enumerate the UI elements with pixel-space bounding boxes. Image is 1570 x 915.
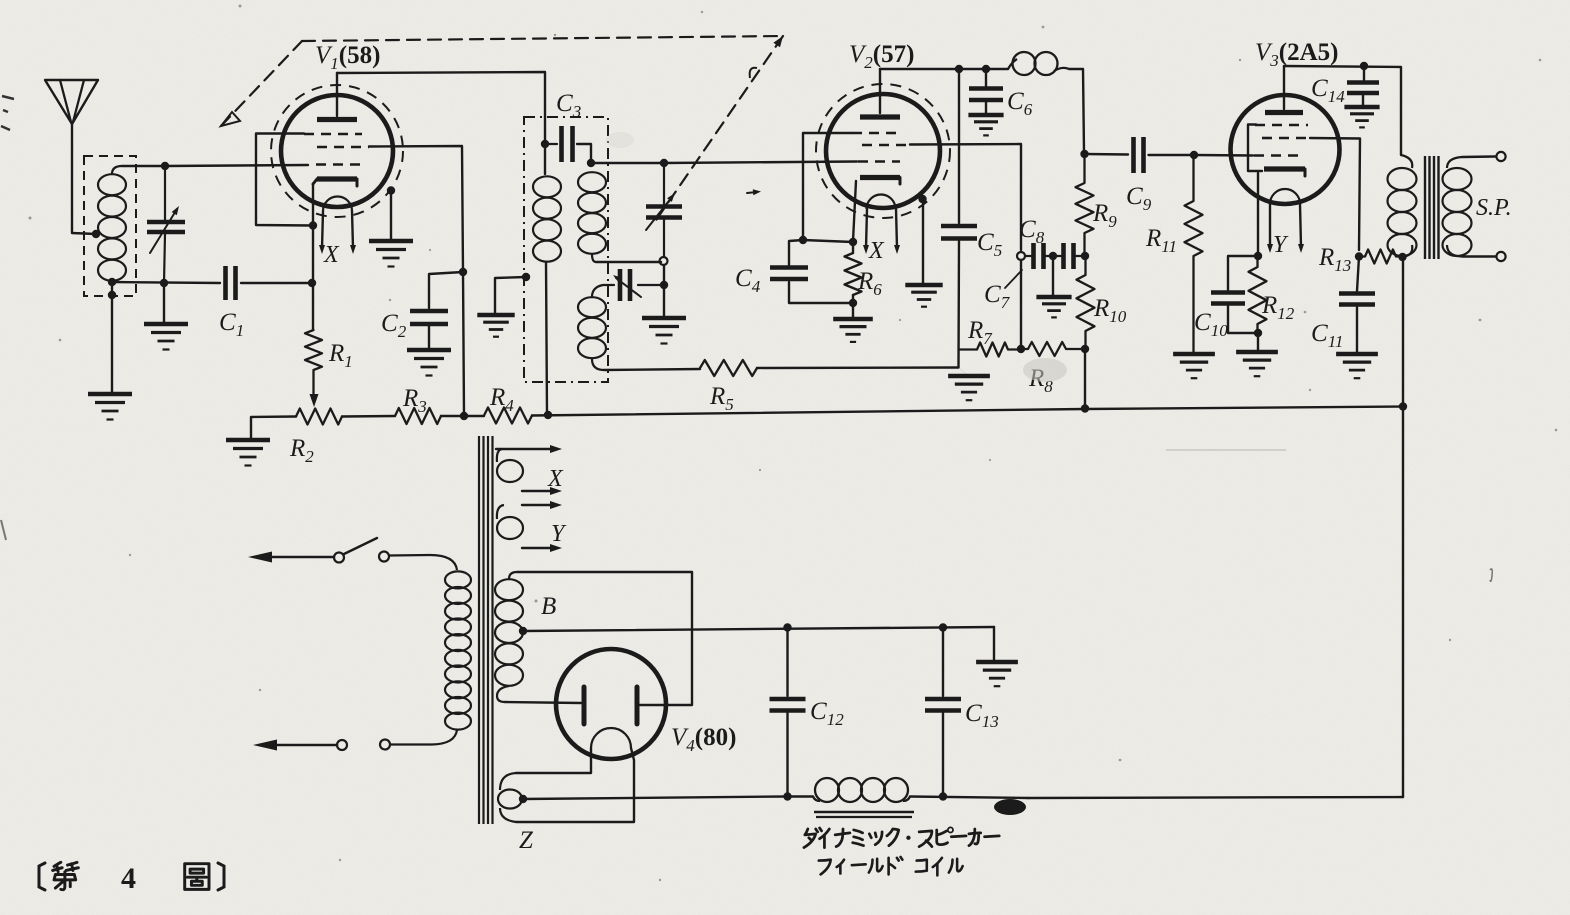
variable capacitor padder xyxy=(603,269,661,301)
label Y winding xyxy=(551,521,567,547)
tube V3 envelope xyxy=(1231,95,1340,204)
wire R5 to ground line xyxy=(757,366,958,369)
speaker terminal bottom xyxy=(1496,252,1505,261)
speaker terminal top xyxy=(1496,152,1505,161)
inductor C3 tickler xyxy=(578,285,606,370)
ground C11 xyxy=(1336,354,1378,378)
ink blob xyxy=(994,799,1026,815)
label R11 xyxy=(1145,225,1177,256)
wire V3 plate top-cap lead xyxy=(1283,66,1285,109)
node bus R10 tap xyxy=(1081,404,1089,412)
wire V2 suppressor box xyxy=(803,133,852,239)
ground B+ line xyxy=(976,662,1018,686)
wire V1 cathode lead xyxy=(312,184,314,330)
svg-text:B: B xyxy=(541,593,556,620)
label C11 xyxy=(1311,320,1343,351)
wire C6 bypass ground lead xyxy=(985,102,987,114)
wire C4 loop xyxy=(789,240,850,303)
resistor R12 xyxy=(1249,256,1267,333)
wire antenna lead xyxy=(72,124,96,234)
node V1 shield ground tap xyxy=(387,186,395,194)
label Z xyxy=(519,827,534,854)
node V3 cathode xyxy=(1254,252,1262,260)
inductor C6 choke xyxy=(1008,52,1069,75)
label R6 xyxy=(857,268,882,299)
inductor mains primary xyxy=(445,571,471,729)
label C5 xyxy=(977,229,1002,260)
label C10 xyxy=(1194,309,1228,340)
capacitor C4 xyxy=(770,268,808,280)
V2 heater xyxy=(867,195,896,210)
wire C3 primary line xyxy=(544,144,546,174)
label C13 xyxy=(965,700,999,731)
label R12 xyxy=(1261,292,1295,323)
resistor R11 xyxy=(1185,155,1203,353)
plug prong top xyxy=(248,552,334,563)
node C3 primary top xyxy=(541,140,549,148)
node B center tap xyxy=(519,627,527,635)
label C12 xyxy=(810,698,844,729)
wire V3 plate line xyxy=(1284,66,1401,155)
node V1 cathode-suppressor xyxy=(309,221,317,229)
wire V2 plate top-cap lead xyxy=(879,69,881,113)
wire B+ right side xyxy=(1402,407,1404,798)
ground R6 xyxy=(833,319,873,342)
node plate load top xyxy=(1080,150,1088,158)
V1 cathode xyxy=(313,179,357,186)
label R3 xyxy=(402,385,427,416)
resistor R5 xyxy=(700,360,757,376)
label X V2 xyxy=(868,238,885,264)
ground R12 xyxy=(1236,352,1278,376)
wire bias bus R2-R3 xyxy=(342,415,395,418)
switch lever xyxy=(344,538,377,554)
svg-text:V2(57): V2(57) xyxy=(849,41,914,72)
V1 screen grid xyxy=(317,146,369,149)
wire coil bottom to C1 xyxy=(112,282,220,283)
node grid/tuning junction xyxy=(161,162,169,170)
wire C13 lower lead xyxy=(942,713,944,797)
V3 cathode xyxy=(1264,169,1305,176)
V3 grid row3 xyxy=(1254,154,1300,157)
plug prong bottom xyxy=(253,740,337,751)
winding X xyxy=(496,445,562,495)
svg-text:Z: Z xyxy=(519,827,534,854)
capacitor C12 xyxy=(770,699,806,711)
capacitor C12 line xyxy=(786,628,788,697)
wire C5 line xyxy=(958,69,960,223)
wire R2 left lead xyxy=(251,417,296,440)
plug pin bottom right xyxy=(380,740,390,750)
scan smudge xyxy=(606,132,1492,581)
label R1 xyxy=(328,340,353,371)
winding B xyxy=(495,572,523,702)
node R6 bottom xyxy=(849,299,857,307)
resistor R9 xyxy=(1076,154,1094,254)
ground C6 bypass xyxy=(968,115,1003,135)
V2 screen grid xyxy=(862,144,910,147)
wire R12 ground lead xyxy=(1257,333,1259,351)
node C12 top xyxy=(783,623,791,631)
label R9 xyxy=(1092,200,1117,231)
V1 control grid xyxy=(316,163,360,166)
wire shield box ground lead xyxy=(495,277,526,314)
V4 heater xyxy=(591,728,631,748)
label S.P. xyxy=(1476,195,1512,221)
wire R9 top to C9 xyxy=(1085,153,1129,156)
ground shield box xyxy=(477,315,514,337)
wire V1 screen to divider xyxy=(369,146,463,272)
wire tickler to R5 xyxy=(604,369,700,370)
node IF tuning junction xyxy=(660,159,668,167)
node C5 tap xyxy=(955,65,963,73)
capacitor C5 xyxy=(941,226,977,239)
wire C11 ground lead xyxy=(1356,307,1358,353)
label C6 xyxy=(1007,88,1033,119)
V3 heater xyxy=(1270,189,1300,204)
node coil ground lead xyxy=(108,291,116,299)
power transformer core xyxy=(479,436,493,824)
wire bottom lead to primary xyxy=(390,730,457,745)
ring C8 left xyxy=(1017,252,1025,260)
dashed gang linkage xyxy=(221,36,783,226)
svg-text:X: X xyxy=(323,242,340,268)
node C3 secondary top xyxy=(587,159,595,167)
wire B+ bottom line xyxy=(523,797,787,800)
node tuning cap bottom xyxy=(160,279,168,287)
resistor R3 xyxy=(395,408,441,424)
wire C6 bypass lead xyxy=(985,69,987,86)
node output primary bottom xyxy=(1398,253,1406,261)
shield box around antenna coil xyxy=(84,156,136,296)
ground antenna coil xyxy=(88,394,132,420)
wire V1 grid line xyxy=(165,165,308,166)
wire V1 plate to C3 xyxy=(337,72,545,144)
wire V3 cathode lead xyxy=(1257,173,1259,255)
label C4 xyxy=(735,265,761,296)
wire screen node to bus xyxy=(463,272,464,415)
variable capacitor antenna tuning xyxy=(147,166,185,283)
wire V2 plate line xyxy=(880,68,1008,70)
wire C7-C8 link xyxy=(1044,255,1064,257)
wire C10 loop bottom xyxy=(1228,306,1258,333)
wire V3 heater legs Y xyxy=(1267,204,1304,253)
wire R10 to bus xyxy=(1084,349,1086,408)
node shield box ground tap xyxy=(522,273,530,281)
wire V2 heater legs X xyxy=(863,209,900,254)
ground V1 shield xyxy=(369,241,413,267)
node R7-R8 junction xyxy=(1017,345,1025,353)
node V1 cathode / C1 xyxy=(308,279,316,287)
wire C12 lower lead xyxy=(786,713,788,797)
label V4(80) xyxy=(671,724,736,755)
V2 suppressor grid xyxy=(852,132,903,135)
wire choke to R9 corner xyxy=(1069,69,1084,152)
label C14 xyxy=(1311,75,1345,106)
node bus B+ tap xyxy=(544,411,552,419)
node C13 bottom xyxy=(939,792,947,800)
ground C14 xyxy=(1344,107,1379,127)
resistor R6 xyxy=(845,253,862,295)
potentiometer arrow R2 xyxy=(310,394,319,407)
node antenna coil tap xyxy=(92,230,100,238)
ground V2 shield xyxy=(905,285,942,307)
tube V1 envelope xyxy=(271,85,403,217)
wire C3 secondary bottom xyxy=(596,261,661,263)
wire R6 ground lead xyxy=(852,303,854,318)
wire ground stub xyxy=(959,368,969,376)
label X V1 xyxy=(323,242,340,268)
wire V1 heater legs X xyxy=(319,211,356,254)
wire bottom line right of coil xyxy=(910,797,1028,799)
variable capacitor IF tuning xyxy=(646,163,682,257)
wire screen line down xyxy=(1020,260,1022,348)
node padder junction xyxy=(660,281,668,289)
resistor R4 xyxy=(484,408,532,424)
ground C7/C8 xyxy=(1036,297,1071,317)
field coil core xyxy=(814,812,914,817)
wire V3 screen to R13 xyxy=(1310,138,1360,250)
label B xyxy=(541,593,556,620)
node C6 bypass tap xyxy=(982,65,990,73)
wire C8 mid ground lead xyxy=(1052,256,1054,296)
capacitor C3 trimmer xyxy=(545,126,591,162)
label R8 xyxy=(1028,365,1053,396)
capacitor C6 bypass xyxy=(969,89,1003,101)
wire V1 suppressor-cathode box xyxy=(256,134,312,226)
label Y V3 xyxy=(1273,232,1289,258)
inductor C3 secondary xyxy=(578,172,606,262)
wire coil top to grid line xyxy=(122,165,165,167)
node R11 tap xyxy=(1190,151,1198,159)
V2 plate xyxy=(860,114,900,119)
resistor R13 xyxy=(1359,250,1402,264)
inductor C3 primary xyxy=(533,174,561,262)
label C9 xyxy=(1126,183,1152,214)
resistor R1 xyxy=(305,330,322,398)
label R7 xyxy=(967,317,993,348)
winding Z xyxy=(498,790,522,809)
wire C9 to V3 grid xyxy=(1149,154,1195,156)
label C1 xyxy=(219,309,244,340)
wire C11 lead xyxy=(1357,257,1359,292)
resistor R8 xyxy=(1021,342,1085,356)
label R13 xyxy=(1318,244,1351,275)
wire B+ mid line xyxy=(523,627,994,631)
text figure 4 caption xyxy=(39,862,224,895)
wire V3 grid line xyxy=(1194,154,1253,157)
wire B+ ground lead xyxy=(993,627,995,661)
node R12 bottom xyxy=(1254,329,1262,337)
node C13 top xyxy=(939,623,947,631)
node R10 bottom xyxy=(1081,345,1089,353)
V1 heater xyxy=(323,197,352,212)
wire speaker top lead xyxy=(1462,155,1495,158)
svg-text:V4(80): V4(80) xyxy=(671,724,736,755)
node Z center tap xyxy=(519,795,527,803)
V3 plate xyxy=(1265,110,1303,115)
inductor field coil xyxy=(813,778,910,802)
capacitor C2 xyxy=(410,311,448,324)
label X winding xyxy=(547,466,564,492)
wire IF node down xyxy=(663,265,665,284)
small flow arrow xyxy=(747,189,761,195)
capacitor C13 line xyxy=(942,628,944,697)
wire output bottom down xyxy=(1402,257,1404,407)
node screen/C2 junction xyxy=(459,268,467,276)
winding Y xyxy=(497,501,562,552)
wire B top to right plate xyxy=(517,572,692,705)
label R2 xyxy=(289,435,314,466)
node V2 suppressor-cathode xyxy=(799,236,807,244)
plug pin bottom left xyxy=(337,740,347,750)
wire V1 plate top-cap lead xyxy=(336,73,338,116)
node V2 cathode xyxy=(849,238,857,246)
node C12 bottom xyxy=(783,792,791,800)
label R5 xyxy=(709,383,734,414)
resistor R2 xyxy=(296,409,342,425)
text dynamic speaker (katakana) xyxy=(804,827,999,847)
wire R6 top xyxy=(852,242,854,253)
wire main bias bus xyxy=(532,409,1085,416)
shield box around C3 xyxy=(524,117,608,382)
V4 right plate xyxy=(635,687,640,724)
node V2 shield ground tap xyxy=(918,195,926,203)
label C8 xyxy=(1019,216,1045,247)
ground R2 xyxy=(226,440,270,466)
V2 cathode xyxy=(860,178,900,185)
wire coil ground lead xyxy=(111,282,113,393)
wire switch to primary xyxy=(389,555,457,570)
ground R11 xyxy=(1173,354,1215,378)
tube V4 envelope xyxy=(556,649,666,759)
wire C2 branch xyxy=(429,272,463,308)
capacitor C1 xyxy=(226,266,236,300)
ground C2 xyxy=(407,350,451,376)
inductor output primary xyxy=(1388,155,1417,257)
wire B+ bottom line right xyxy=(1028,797,1403,798)
resistor R10 xyxy=(1077,256,1095,348)
wire C1 to V1 cathode node xyxy=(241,282,312,284)
label C2 xyxy=(381,310,407,341)
V3 grid bracket xyxy=(1248,125,1262,172)
label R4 xyxy=(489,384,514,415)
capacitor C11 xyxy=(1339,294,1375,305)
V3 grid row2 xyxy=(1262,137,1310,140)
V3 grid row1 xyxy=(1255,124,1308,127)
wire bus R3-R4 xyxy=(441,415,484,417)
node R9-R10 junction xyxy=(1081,252,1089,260)
V1 plate xyxy=(317,117,357,122)
wire C8 left lead xyxy=(1025,255,1034,257)
wire C14 lead xyxy=(1363,66,1365,80)
wire V2 shield ground lead xyxy=(922,200,924,284)
capacitor C9 xyxy=(1134,137,1144,173)
wire cathode to suppressor xyxy=(803,240,853,242)
label C7 xyxy=(984,270,1022,312)
V4 left plate xyxy=(582,687,587,724)
svg-text:X: X xyxy=(868,238,885,264)
wire V4 filament left leg xyxy=(500,748,591,790)
wire C3 primary to bus xyxy=(546,262,547,415)
capacitor C7 xyxy=(1034,243,1044,269)
capacitor C10 xyxy=(1211,293,1245,304)
wire C3 secondary to V2 grid xyxy=(591,162,664,164)
wire bottom line to coil xyxy=(788,795,814,797)
wire R6 bottom xyxy=(852,295,854,303)
switch contact right xyxy=(379,552,389,562)
resistor R7 xyxy=(959,343,1021,357)
node bus output tap xyxy=(1399,402,1407,410)
node secondary bottom ring xyxy=(660,257,668,265)
wire B bottom to left plate xyxy=(505,702,581,703)
label V1(58) xyxy=(315,42,380,73)
label C3 xyxy=(556,90,581,121)
wire C5 to ground corner xyxy=(957,241,960,368)
antenna xyxy=(45,80,98,124)
ground C5/R5 xyxy=(948,376,990,400)
inductor speaker secondary xyxy=(1443,157,1472,257)
wire V1 shield ground lead xyxy=(390,192,392,240)
wire C10 loop top xyxy=(1228,256,1258,290)
capacitor C13 xyxy=(925,699,961,711)
scan edge artifact left xyxy=(1,96,14,540)
wire main bias bus right xyxy=(1085,407,1403,410)
wire V2 cathode lead xyxy=(853,181,856,241)
capacitor C14 xyxy=(1347,83,1379,94)
svg-text:V1(58): V1(58) xyxy=(315,42,380,73)
wire grid line to V2 xyxy=(664,162,857,164)
V2 control grid xyxy=(858,160,900,163)
label V2(57) xyxy=(849,41,914,72)
capacitor C8 xyxy=(1064,243,1074,269)
wire ground lead of tuning cap xyxy=(163,283,165,323)
node C7-C8 mid xyxy=(1049,252,1057,260)
node R13 left xyxy=(1355,252,1363,260)
wire V4 filament right leg xyxy=(500,748,634,822)
wire C14 ground lead xyxy=(1362,95,1364,106)
switch contact left xyxy=(334,553,344,563)
svg-text:S.P.: S.P. xyxy=(1476,195,1512,221)
label R10 xyxy=(1093,295,1127,326)
wire C2 to ground xyxy=(428,326,430,349)
wire padder node to ground xyxy=(663,285,665,317)
label V3(2A5) xyxy=(1255,39,1339,70)
node C14 tap xyxy=(1360,62,1368,70)
inductor antenna coil xyxy=(98,166,126,283)
output transformer core xyxy=(1425,156,1439,259)
svg-text:4: 4 xyxy=(121,862,136,895)
V1 suppressor grid xyxy=(304,133,362,136)
svg-text:X: X xyxy=(547,466,564,492)
wire C8 right lead xyxy=(1074,255,1086,257)
ground tuning cap xyxy=(144,324,188,350)
wire V2 screen feed xyxy=(910,144,1021,250)
tube V2 envelope xyxy=(816,84,950,218)
node bus screen tap xyxy=(460,412,468,420)
wire speaker bottom lead xyxy=(1462,255,1495,257)
node coil bottom xyxy=(108,278,116,286)
text field coil (katakana) xyxy=(819,857,963,875)
ground IF secondary xyxy=(642,318,686,344)
